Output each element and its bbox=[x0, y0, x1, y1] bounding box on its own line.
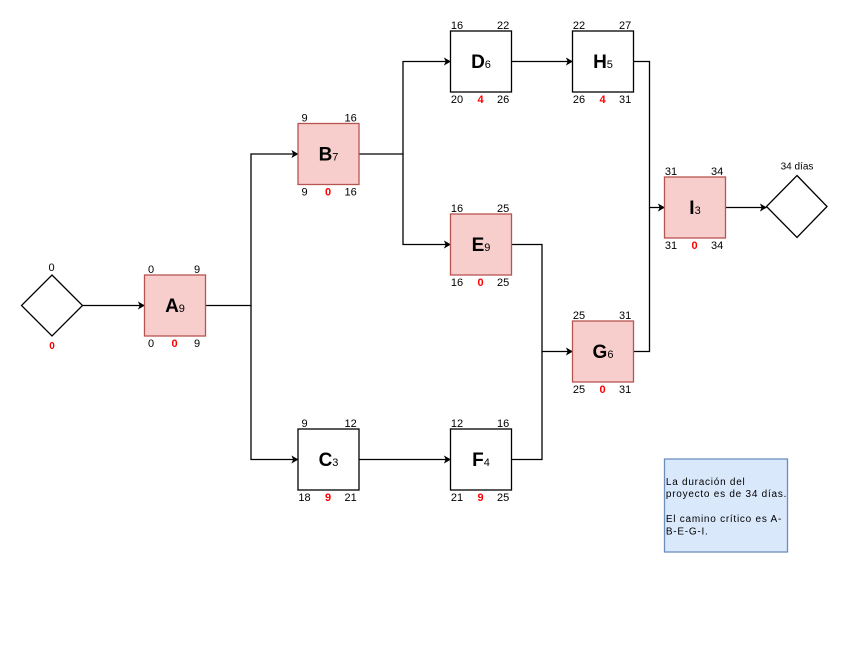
activity node D6 bbox=[451, 20, 512, 106]
svg-text:34: 34 bbox=[711, 166, 723, 178]
svg-text:9: 9 bbox=[194, 338, 200, 350]
svg-text:27: 27 bbox=[619, 20, 631, 32]
activity node B7 bbox=[298, 112, 359, 198]
svg-text:16: 16 bbox=[344, 187, 356, 199]
svg-text:25: 25 bbox=[497, 277, 509, 289]
svg-text:0: 0 bbox=[691, 240, 697, 252]
wire G to I bbox=[634, 208, 650, 352]
svg-text:4: 4 bbox=[477, 94, 484, 106]
svg-text:12: 12 bbox=[344, 418, 356, 430]
svg-text:31: 31 bbox=[619, 384, 631, 396]
wire E to G bbox=[512, 245, 573, 352]
svg-text:0: 0 bbox=[49, 341, 55, 352]
svg-text:0: 0 bbox=[48, 262, 54, 274]
svg-text:0: 0 bbox=[148, 264, 154, 276]
wire B to E bbox=[403, 154, 451, 245]
activity node E9 bbox=[451, 203, 512, 289]
svg-text:0: 0 bbox=[148, 338, 154, 350]
svg-text:21: 21 bbox=[451, 492, 463, 504]
svg-text:31: 31 bbox=[619, 94, 631, 106]
svg-text:12: 12 bbox=[451, 418, 463, 430]
svg-text:B-E-G-I.: B-E-G-I. bbox=[666, 526, 709, 537]
svg-text:El camino crítico es A-: El camino crítico es A- bbox=[666, 514, 782, 525]
svg-text:25: 25 bbox=[497, 492, 509, 504]
svg-text:21: 21 bbox=[344, 492, 356, 504]
svg-text:16: 16 bbox=[344, 112, 356, 124]
svg-text:25: 25 bbox=[497, 203, 509, 215]
activity node C3 bbox=[298, 418, 359, 504]
svg-text:34 días: 34 días bbox=[781, 162, 814, 173]
wire A to B bbox=[206, 154, 299, 306]
svg-text:0: 0 bbox=[171, 338, 177, 350]
svg-text:22: 22 bbox=[497, 20, 509, 32]
wire C to F bbox=[359, 459, 451, 461]
svg-text:22: 22 bbox=[573, 20, 585, 32]
svg-text:0: 0 bbox=[477, 277, 483, 289]
svg-text:4: 4 bbox=[599, 94, 606, 106]
svg-text:9: 9 bbox=[194, 264, 200, 276]
svg-text:9: 9 bbox=[301, 418, 307, 430]
svg-text:16: 16 bbox=[451, 20, 463, 32]
wire A to C bbox=[251, 306, 298, 460]
wire D to H bbox=[512, 61, 573, 63]
activity node G6 bbox=[573, 310, 634, 396]
svg-text:26: 26 bbox=[573, 94, 585, 106]
svg-text:9: 9 bbox=[301, 187, 307, 199]
svg-text:9: 9 bbox=[301, 112, 307, 124]
note box: project duration and critical path bbox=[665, 459, 788, 552]
wire H to I bbox=[634, 62, 665, 208]
svg-text:31: 31 bbox=[665, 240, 677, 252]
wire I to end bbox=[726, 207, 767, 209]
svg-text:34: 34 bbox=[711, 240, 723, 252]
wire B to D bbox=[359, 62, 451, 155]
activity node F4 bbox=[451, 418, 512, 504]
activity node I3 bbox=[665, 166, 726, 252]
svg-text:26: 26 bbox=[497, 94, 509, 106]
svg-text:18: 18 bbox=[298, 492, 310, 504]
svg-text:31: 31 bbox=[619, 310, 631, 322]
svg-text:9: 9 bbox=[325, 492, 331, 504]
svg-text:16: 16 bbox=[451, 203, 463, 215]
svg-text:La duración del: La duración del bbox=[666, 477, 746, 488]
activity node A9 bbox=[145, 264, 206, 350]
activity node H5 bbox=[573, 20, 634, 106]
svg-text:proyecto es de 34 días.: proyecto es de 34 días. bbox=[666, 489, 787, 500]
svg-text:25: 25 bbox=[573, 384, 585, 396]
end milestone diamond (34 dias) bbox=[767, 162, 828, 238]
svg-text:9: 9 bbox=[477, 492, 483, 504]
svg-text:16: 16 bbox=[497, 418, 509, 430]
svg-text:25: 25 bbox=[573, 310, 585, 322]
svg-text:0: 0 bbox=[599, 384, 605, 396]
wire start to A bbox=[83, 305, 145, 307]
start milestone diamond bbox=[22, 262, 83, 352]
svg-text:0: 0 bbox=[325, 187, 331, 199]
wire F to G bbox=[512, 352, 543, 460]
svg-text:31: 31 bbox=[665, 166, 677, 178]
svg-text:16: 16 bbox=[451, 277, 463, 289]
svg-text:20: 20 bbox=[451, 94, 463, 106]
